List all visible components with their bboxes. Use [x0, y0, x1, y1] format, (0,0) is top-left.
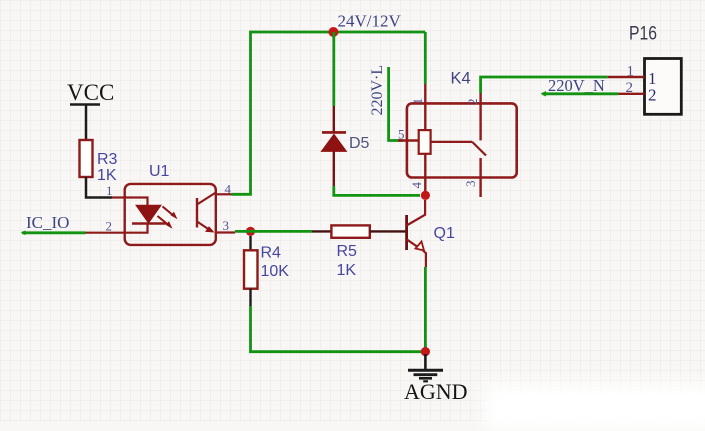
wire D5 to K4/Q1 node [334, 186, 420, 195]
svg-text:5: 5 [398, 127, 405, 142]
ground AGND [404, 354, 468, 404]
svg-text:1K: 1K [337, 262, 357, 279]
svg-text:2: 2 [626, 80, 634, 96]
svg-text:4: 4 [409, 182, 424, 189]
wire rail to D5 [332, 32, 335, 106]
svg-text:1K: 1K [97, 167, 117, 184]
svg-text:1: 1 [627, 64, 635, 80]
resistor R3 [80, 140, 118, 184]
LED triangle [136, 205, 161, 223]
pin 1 lead [608, 76, 645, 78]
transistor Q1 [407, 200, 455, 267]
emitter with arrow [197, 222, 212, 232]
lead to R5 [312, 230, 331, 232]
phototransistor base [196, 198, 198, 228]
switch linkage [431, 141, 473, 143]
emitter [407, 239, 422, 249]
wire Q1 emitter to ground rail [424, 267, 427, 352]
svg-text:R5: R5 [337, 243, 358, 260]
svg-text:R3: R3 [97, 151, 118, 168]
wire pin4 up to 24V rail [232, 32, 426, 194]
svg-text:2: 2 [465, 99, 480, 106]
wire end tick [542, 92, 546, 96]
power symbol VCC [67, 80, 114, 105]
coil [419, 130, 431, 154]
wire U1 pin3 [216, 231, 235, 233]
svg-text:220V·L: 220V·L [369, 65, 386, 116]
light arrow 2 [158, 216, 170, 226]
svg-text:K4: K4 [451, 70, 471, 88]
wire U1 pin4 [216, 193, 232, 195]
pin2 lead [86, 224, 148, 233]
wire K4 pin2 to P16 pin1 [481, 77, 608, 93]
wire 220V_N [542, 92, 618, 95]
svg-text:10K: 10K [261, 263, 290, 280]
svg-text:1: 1 [106, 183, 113, 198]
pin 4 lead [424, 154, 426, 196]
pin 2 lead [618, 93, 644, 95]
svg-text:2: 2 [106, 219, 113, 234]
base bar [405, 215, 408, 250]
pin1 lead into LED anode [112, 198, 148, 206]
switch arm [472, 142, 486, 156]
pin 3 lead [479, 158, 481, 197]
wire K4 pin1 from rail [424, 32, 427, 84]
wire IC_IO [22, 231, 86, 234]
svg-text:2: 2 [648, 86, 657, 105]
svg-text:1: 1 [410, 98, 425, 105]
pin 2 lead [479, 93, 481, 140]
junction dot K4 pin4 / Q1 collector / D5 [421, 191, 430, 200]
pin 5 lead [398, 139, 419, 141]
pin 1 lead [424, 84, 426, 130]
diode D5 [321, 106, 369, 186]
op-amp U1 optocoupler [86, 163, 216, 245]
watermark blur patch [484, 383, 705, 431]
svg-text:IC_IO: IC_IO [26, 213, 69, 232]
collector [407, 200, 426, 226]
wire VCC to R3 [85, 105, 88, 141]
connector P16 [608, 24, 682, 115]
relay K4 [398, 70, 517, 198]
resistor R4 [244, 236, 289, 306]
svg-text:VCC: VCC [67, 80, 114, 105]
wire 220V-L to K4 pin5 [389, 67, 403, 141]
svg-text:3: 3 [463, 181, 478, 188]
collector [197, 193, 216, 205]
svg-text:AGND: AGND [404, 379, 468, 404]
junction dot ground [421, 347, 430, 356]
svg-text:3: 3 [223, 218, 230, 233]
wire R5 to Q1 base [370, 230, 407, 232]
svg-text:P16: P16 [629, 24, 657, 45]
resistor R5 [331, 225, 369, 279]
svg-text:U1: U1 [149, 163, 170, 180]
svg-text:220V_N: 220V_N [548, 76, 605, 95]
wire pin3 node to R5 [235, 230, 312, 233]
wire R3 to U1 pin1 [86, 177, 112, 198]
junction dot U1 pin3 node [246, 227, 255, 236]
svg-text:R4: R4 [261, 245, 282, 262]
svg-text:Q1: Q1 [434, 225, 455, 242]
svg-text:24V/12V: 24V/12V [338, 12, 402, 31]
light arrow 1 [163, 207, 175, 217]
junction dot 24V rail [328, 27, 338, 37]
emitter tail [423, 251, 426, 268]
emitter arrowhead (open) [416, 242, 425, 251]
LED cathode bar [132, 222, 166, 224]
wire R4 to ground rail [251, 306, 422, 352]
svg-text:D5: D5 [349, 135, 370, 152]
